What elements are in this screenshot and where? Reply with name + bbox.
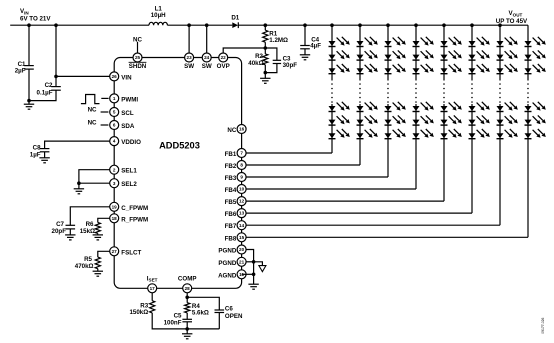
LED string 7 LED 5 — [497, 115, 518, 125]
wire R4 to C5 — [186, 313, 188, 319]
resistor R5 — [95, 257, 100, 269]
wire C3 bottom branch — [265, 64, 277, 73]
LED string 2 LED 3 — [357, 64, 378, 74]
pin 6 SDA — [110, 121, 119, 130]
svg-text:FB7: FB7 — [225, 223, 237, 230]
wire OVP to divider — [223, 48, 265, 53]
svg-text:SW: SW — [184, 63, 194, 70]
svg-text:26: 26 — [112, 74, 118, 79]
wire to PGND symbol — [254, 262, 263, 266]
svg-text:SEL1: SEL1 — [121, 168, 137, 175]
wire R2 top — [264, 48, 266, 54]
pin 10 FB4 — [237, 185, 246, 194]
LED string 1 LED 1 — [329, 37, 350, 47]
junction AGND node — [252, 273, 256, 277]
wire PGND to AGND node — [253, 262, 255, 275]
LED string 5 LED 2 — [441, 50, 462, 60]
LED string 8 LED 2 — [525, 50, 546, 60]
LED string 2 LED 4 — [357, 102, 378, 112]
svg-text:13: 13 — [239, 211, 245, 216]
svg-text:5: 5 — [113, 110, 116, 115]
wire dash to SDA — [101, 124, 109, 126]
svg-text:18: 18 — [112, 216, 118, 221]
junction COMP/R4/C6 — [185, 296, 189, 300]
wire FB7 to LED string 7 — [242, 224, 500, 226]
wire R2 bottom — [264, 65, 266, 73]
ground below R6 — [93, 234, 103, 240]
svg-text:20: 20 — [239, 247, 245, 252]
wire LED string 1 lower — [331, 104, 333, 153]
wire COMP down — [186, 288, 188, 297]
svg-text:FSLCT: FSLCT — [121, 249, 141, 256]
svg-text:21: 21 — [239, 259, 245, 264]
svg-text:4µF: 4µF — [310, 43, 321, 50]
wire dash to PWMI — [101, 97, 108, 99]
label SHDN with overline — [129, 62, 147, 70]
pin 25 SHDN — [133, 53, 142, 62]
wire PGND21 — [242, 261, 254, 263]
LED string 5 LED 1 — [441, 37, 462, 47]
ground below C1 — [24, 101, 34, 110]
junction rail / SW1 — [187, 23, 191, 27]
svg-text:1µF: 1µF — [30, 151, 41, 158]
svg-text:1: 1 — [113, 96, 116, 101]
wire LED string 5 upper — [443, 25, 445, 80]
wire VDDIO to C8 — [45, 141, 115, 149]
junction rail / C4 — [303, 23, 307, 27]
wire SEL1 down — [79, 170, 114, 184]
junction R1/R2/OVP — [264, 46, 268, 50]
wire LED string 3 lower — [387, 104, 389, 177]
svg-text:14: 14 — [239, 223, 245, 228]
dotted continuation LED string 1 — [331, 83, 333, 103]
svg-text:SW: SW — [202, 63, 212, 70]
svg-text:8: 8 — [240, 163, 243, 168]
ground below C7 — [65, 229, 75, 240]
LED string 7 LED 2 — [497, 50, 518, 60]
svg-text:15: 15 — [239, 235, 245, 240]
junction compensation ground node — [185, 327, 189, 331]
svg-text:C6: C6 — [225, 305, 233, 312]
wire LED string 2 lower — [359, 104, 361, 165]
LED string 4 LED 3 — [413, 64, 434, 74]
svg-text:SHDN: SHDN — [129, 63, 147, 70]
LED string 5 LED 4 — [441, 102, 462, 112]
junction rail / R1 — [264, 23, 268, 27]
LED string 3 LED 4 — [385, 102, 406, 112]
svg-text:19: 19 — [112, 204, 118, 209]
junction VOUT rail / LED string 5 — [442, 23, 446, 27]
junction VOUT rail / LED string 3 — [386, 23, 390, 27]
junction rail / SW2 — [205, 23, 209, 27]
svg-text:VDDIO: VDDIO — [121, 139, 141, 146]
ground below SEL pins — [74, 183, 84, 194]
LED string 3 LED 1 — [385, 37, 406, 47]
junction VOUT rail / LED string 4 — [414, 23, 418, 27]
svg-text:NC: NC — [227, 127, 236, 134]
wire NC stub above SHDN — [137, 42, 139, 53]
wire SW2 stub — [206, 25, 208, 53]
wire LED string 5 lower — [443, 104, 445, 201]
svg-text:0.1µF: 0.1µF — [37, 89, 53, 96]
wire LED string 4 lower — [415, 104, 417, 189]
junction VOUT rail / LED string 7 — [498, 23, 502, 27]
LED string 7 LED 6 — [497, 129, 518, 139]
pin 23 SW — [185, 53, 194, 62]
junction R2/C3 ground node — [264, 71, 268, 75]
junction PGND node — [252, 260, 256, 264]
svg-text:NC: NC — [88, 120, 97, 127]
wire AGND stub — [242, 273, 254, 275]
pin 7 FB1 — [237, 149, 246, 158]
capacitor C7 — [66, 225, 76, 229]
svg-text:10µH: 10µH — [151, 12, 166, 19]
wire C5 bottom — [186, 322, 188, 329]
svg-text:FB1: FB1 — [225, 151, 237, 158]
LED string 1 LED 4 — [329, 102, 350, 112]
pin 20 PGND — [237, 245, 246, 254]
LED string 4 LED 2 — [413, 50, 434, 60]
resistor R2 — [263, 54, 268, 65]
svg-text:NC: NC — [133, 36, 142, 43]
dotted continuation LED string 5 — [443, 83, 445, 103]
svg-text:NC: NC — [88, 107, 97, 114]
capacitor C6 — [215, 310, 225, 313]
LED string 5 LED 3 — [441, 64, 462, 74]
PWM input pulse symbol — [81, 95, 100, 104]
LED string 8 LED 5 — [525, 115, 546, 125]
LED string 4 LED 4 — [413, 102, 434, 112]
wire C1 top — [28, 25, 30, 65]
LED string 3 LED 6 — [385, 129, 406, 139]
LED string 1 LED 2 — [329, 50, 350, 60]
wire L1 to D1 — [167, 24, 232, 26]
LED string 8 LED 3 — [525, 64, 546, 74]
pin 18 R_FPWM — [110, 214, 119, 223]
pin 9 FB3 — [237, 173, 246, 182]
wire FB4 to LED string 4 — [242, 188, 416, 190]
wire LED string 6 upper — [471, 25, 473, 80]
wire FB3 to LED string 3 — [242, 176, 388, 178]
svg-text:150kΩ: 150kΩ — [129, 309, 148, 316]
power ground symbol (open triangle) — [259, 266, 266, 272]
svg-text:C5: C5 — [174, 313, 182, 320]
pin 26 VIN — [110, 72, 119, 81]
ground below C4 — [300, 49, 310, 60]
wire LED string 7 lower — [499, 104, 501, 225]
wire FB2 to LED string 2 — [242, 164, 360, 166]
svg-text:OVP: OVP — [217, 63, 230, 70]
junction VIN rail / VIN branch — [54, 23, 58, 27]
LED string 5 LED 5 — [441, 115, 462, 125]
wire PGND20 — [242, 250, 254, 262]
capacitor C1 — [24, 66, 34, 70]
resistor R4 — [185, 303, 190, 313]
svg-text:ADD5203: ADD5203 — [159, 140, 200, 150]
svg-text:SDA: SDA — [121, 123, 135, 130]
svg-text:AGND: AGND — [218, 272, 237, 279]
LED string 2 LED 6 — [357, 129, 378, 139]
LED string 6 LED 2 — [469, 50, 490, 60]
junction VIN rail / C1 — [27, 23, 31, 27]
LED string 6 LED 6 — [469, 129, 490, 139]
dotted continuation LED string 4 — [415, 83, 417, 103]
svg-text:25: 25 — [135, 55, 141, 60]
pin 15 FB8 — [237, 233, 246, 242]
wire R1 bottom — [264, 42, 266, 48]
svg-text:1.2MΩ: 1.2MΩ — [269, 37, 288, 44]
svg-text:12: 12 — [239, 199, 245, 204]
LED string 1 LED 3 — [329, 64, 350, 74]
wire C6 bottom — [218, 313, 220, 329]
pin 13 FB6 — [237, 209, 246, 218]
LED string 2 LED 5 — [357, 115, 378, 125]
svg-text:SCL: SCL — [121, 110, 134, 117]
wire FSLCT to R5 — [98, 251, 114, 257]
LED string 3 LED 5 — [385, 115, 406, 125]
ground below C5 — [182, 329, 192, 339]
svg-text:9: 9 — [240, 175, 243, 180]
inductor L1 — [149, 22, 167, 25]
svg-text:28: 28 — [185, 286, 191, 291]
wire LED string 1 upper — [331, 25, 333, 80]
ground below R2 — [260, 73, 270, 84]
svg-text:R_FPWM: R_FPWM — [121, 216, 148, 223]
dotted continuation LED string 7 — [499, 83, 501, 103]
LED string 8 LED 6 — [525, 129, 546, 139]
resistor R3 — [150, 301, 155, 313]
resistor R1 — [263, 30, 268, 42]
wire LED string 3 upper — [387, 25, 389, 80]
wire C4 top — [304, 25, 306, 45]
pin 1 PWMI — [110, 94, 119, 103]
wire LED string 7 upper — [499, 25, 501, 80]
svg-text:22: 22 — [221, 55, 227, 60]
pin 3 SEL2 — [110, 179, 119, 188]
wire VOUT rail — [238, 24, 528, 26]
resistor R6 — [95, 223, 100, 234]
svg-text:FB5: FB5 — [225, 199, 237, 206]
LED string 7 LED 3 — [497, 64, 518, 74]
wire LED string 2 upper — [359, 25, 361, 80]
wire C_FPWM to C7 — [70, 207, 114, 226]
svg-text:PGND: PGND — [218, 260, 236, 267]
pin 21 PGND — [237, 257, 246, 266]
svg-text:FB3: FB3 — [225, 175, 237, 182]
wire C1 bottom — [28, 69, 30, 101]
junction VIN pin / C2 — [54, 75, 58, 79]
capacitor C8 — [40, 149, 50, 152]
LED string 6 LED 5 — [469, 115, 490, 125]
LED string 2 LED 2 — [357, 50, 378, 60]
wire FB1 to LED string 1 — [242, 152, 332, 154]
pin 24 SW — [202, 53, 211, 62]
svg-text:COMP: COMP — [178, 275, 197, 282]
junction C1/C2 ground node — [27, 99, 31, 103]
pin 27 FSLCT — [110, 247, 119, 256]
wire FB8 to LED string 8 — [242, 236, 528, 238]
svg-text:30pF: 30pF — [283, 62, 298, 69]
wire rail to VIN pin — [56, 25, 114, 76]
svg-text:24: 24 — [204, 55, 210, 60]
LED string 8 LED 1 — [525, 37, 546, 47]
pin 11 AGND — [237, 270, 246, 279]
LED string 4 LED 1 — [413, 37, 434, 47]
svg-text:40kΩ: 40kΩ — [248, 60, 263, 67]
svg-text:23: 23 — [187, 55, 193, 60]
svg-text:09177-026: 09177-026 — [541, 317, 545, 333]
svg-text:D1: D1 — [231, 15, 239, 22]
svg-text:7: 7 — [240, 151, 243, 156]
svg-text:16: 16 — [239, 127, 245, 132]
junction VOUT rail / LED string 1 — [330, 23, 334, 27]
LED string 6 LED 4 — [469, 102, 490, 112]
svg-text:6: 6 — [113, 123, 116, 128]
wire R3 bottom — [152, 313, 219, 329]
svg-text:PGND: PGND — [218, 248, 236, 255]
wire FB5 to LED string 5 — [242, 200, 444, 202]
wire R4 top — [186, 297, 188, 302]
LED string 6 LED 3 — [469, 64, 490, 74]
dotted continuation LED string 3 — [387, 83, 389, 103]
LED string 3 LED 3 — [385, 64, 406, 74]
diode D1 — [232, 22, 238, 28]
svg-text:27: 27 — [112, 249, 118, 254]
wire C2 top — [55, 76, 57, 86]
junction VOUT rail / LED string 2 — [358, 23, 362, 27]
pin 4 VDDIO — [110, 137, 119, 146]
LED string 1 LED 6 — [329, 129, 350, 139]
svg-text:20pF: 20pF — [52, 228, 67, 235]
capacitor C4 — [300, 46, 310, 49]
pin 5 SCL — [110, 108, 119, 117]
wire C6 branch top — [187, 297, 219, 310]
pin 22 OVP — [219, 53, 228, 62]
svg-text:2: 2 — [113, 167, 116, 172]
wire ISET to R3 — [151, 288, 153, 300]
LED string 7 LED 1 — [497, 37, 518, 47]
pin 14 FB7 — [237, 221, 246, 230]
pin 16 NC — [237, 125, 246, 134]
pin 19 C_FPWM — [110, 202, 119, 211]
ground below AGND — [248, 274, 258, 289]
svg-text:17: 17 — [150, 286, 156, 291]
svg-text:15kΩ: 15kΩ — [80, 228, 95, 235]
LED string 2 LED 1 — [357, 37, 378, 47]
wire LED string 8 lower — [527, 104, 529, 237]
dotted continuation LED string 2 — [359, 83, 361, 103]
svg-text:100nF: 100nF — [164, 320, 182, 327]
ground below R5 — [93, 269, 103, 277]
svg-text:VIN: VIN — [121, 74, 132, 81]
svg-text:FB2: FB2 — [225, 163, 237, 170]
svg-text:FB8: FB8 — [225, 235, 237, 242]
junction SEL1/SEL2 — [77, 181, 81, 185]
pin 8 FB2 — [237, 161, 246, 170]
pin 28 COMP — [183, 284, 192, 293]
svg-text:C2: C2 — [45, 82, 53, 89]
wire LED string 8 upper — [527, 25, 529, 80]
svg-text:10: 10 — [239, 187, 245, 192]
pin 2 SEL1 — [110, 165, 119, 174]
LED string 7 LED 4 — [497, 102, 518, 112]
svg-text:6V TO 21V: 6V TO 21V — [20, 16, 51, 23]
wire LED string 6 lower — [471, 104, 473, 213]
svg-text:OPEN: OPEN — [225, 313, 243, 320]
wire VIN rail — [10, 24, 149, 26]
wire R_FPWM to R6 — [98, 218, 114, 222]
pin 17 ISET — [148, 284, 157, 293]
op-amp U1 ADD5203 IC body outline — [114, 58, 241, 289]
wire dash to SCL — [101, 111, 109, 113]
svg-text:PWMI: PWMI — [121, 96, 138, 103]
wire C3 top branch — [265, 48, 277, 60]
svg-text:C_FPWM: C_FPWM — [121, 205, 148, 212]
dotted continuation LED string 6 — [471, 83, 473, 103]
wire SW1 stub — [188, 25, 190, 53]
wire FB6 to LED string 6 — [242, 212, 472, 214]
wire C2 bottom — [29, 90, 56, 100]
svg-text:SEL2: SEL2 — [121, 181, 137, 188]
ground below C8 — [39, 152, 49, 163]
wire R1 top — [264, 25, 266, 30]
capacitor C5 — [182, 319, 192, 322]
capacitor C2 — [51, 87, 61, 91]
LED string 5 LED 6 — [441, 129, 462, 139]
wire SEL2 — [79, 182, 114, 184]
LED string 3 LED 2 — [385, 50, 406, 60]
svg-text:4: 4 — [113, 139, 116, 144]
LED string 4 LED 5 — [413, 115, 434, 125]
pin 12 FB5 — [237, 197, 246, 206]
svg-text:FB4: FB4 — [225, 187, 237, 194]
svg-text:FB6: FB6 — [225, 211, 237, 218]
svg-text:2µF: 2µF — [15, 68, 26, 75]
dotted continuation LED string 8 — [527, 83, 529, 103]
LED string 8 LED 4 — [525, 102, 546, 112]
svg-text:470kΩ: 470kΩ — [75, 263, 94, 270]
capacitor C3 — [273, 60, 281, 63]
svg-text:3: 3 — [113, 181, 116, 186]
junction VOUT rail / LED string 6 — [470, 23, 474, 27]
svg-text:5.6kΩ: 5.6kΩ — [192, 310, 209, 317]
wire LED string 4 upper — [415, 25, 417, 80]
LED string 6 LED 1 — [469, 37, 490, 47]
LED string 1 LED 5 — [329, 115, 350, 125]
LED string 4 LED 6 — [413, 129, 434, 139]
